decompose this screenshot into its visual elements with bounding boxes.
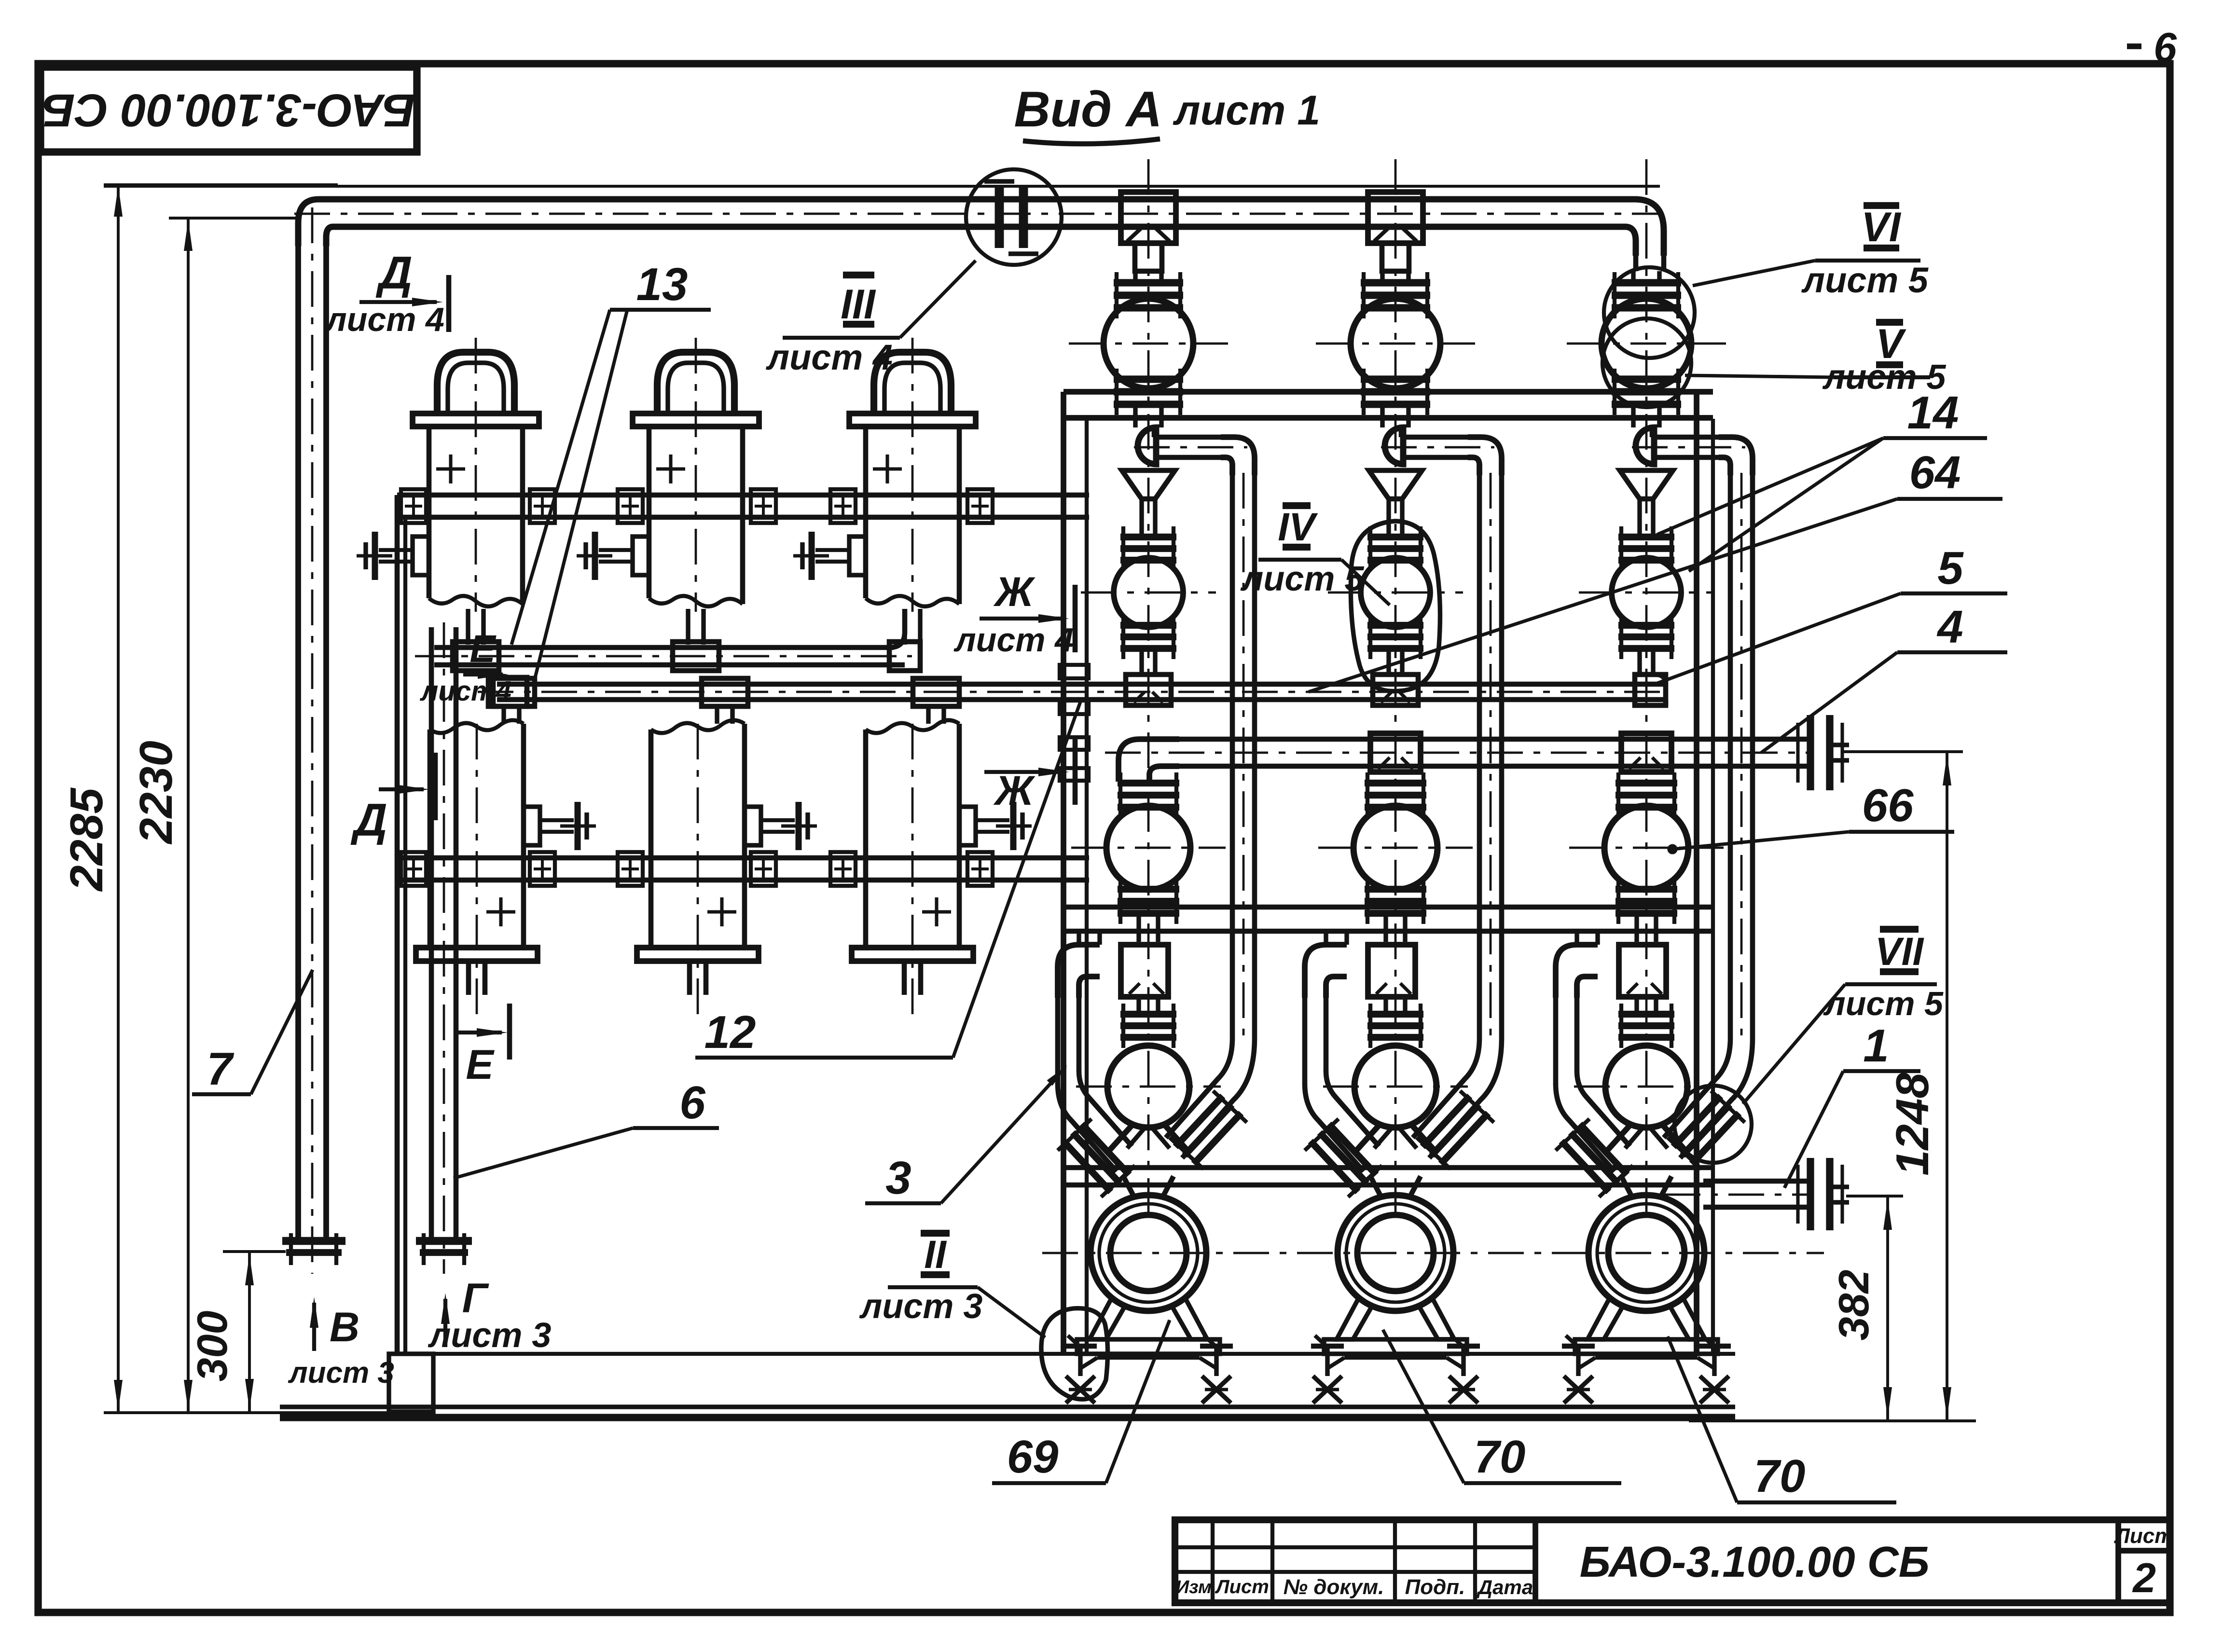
section marker Г лист 3 [443,1299,447,1347]
detail circle VII on pump 3 right arm [1674,1086,1752,1163]
ball valve row 2 [1361,558,1430,627]
tee on lower manifold [1126,675,1171,705]
svg-text:Ж: Ж [993,768,1036,814]
left inlet arm [1553,998,1559,1085]
flange pair above ball valve [1114,279,1183,286]
drain cock К2892 [1325,1346,1329,1376]
elbow at right end of top header [1609,199,1664,256]
flange pair below ball valve [1114,375,1183,383]
flange pair above row2 valve [1120,534,1176,540]
vessel Ф4 cross mark [486,910,515,913]
svg-text:13: 13 [636,259,688,310]
rail clamp [830,489,856,523]
pump module frame right post [1694,392,1699,1354]
top header pipe 2 [104,185,1660,188]
flange pair below row2 valve [1367,622,1423,629]
flange pair below ball valve [1361,375,1430,383]
column centreline [1645,159,1648,1216]
rail clamp lower [530,852,555,886]
ball valve row 3 [1353,806,1437,890]
stamp box top-left (inverted drawing number) [41,67,417,152]
svg-text:2: 2 [2132,1555,2156,1601]
svg-text:Д: Д [375,247,412,299]
filter vessel Ф2 (upper row) [657,352,734,416]
filter vessel Ф6 (lower row) [863,730,869,948]
spool to row4 valve [1634,997,1639,1012]
right arm elbow from downcomer [1413,1038,1479,1138]
spool to manifold [1386,650,1391,675]
pump Н3 baseplate [1575,1339,1718,1354]
vessel Ф4 bottom nozzle [466,961,471,995]
vessel Ф3 top flange [849,413,976,427]
svg-text:IV: IV [1278,505,1318,549]
svg-text:лист 5: лист 5 [1823,358,1947,397]
tee fitting on manifold below vessel Ф2 [673,642,719,671]
flange pair below row2 valve [1120,622,1176,629]
distribution elbow [1556,945,1598,998]
svg-text:69: 69 [1007,1431,1059,1483]
svg-text:лист 3: лист 3 [288,1356,394,1390]
title block table [1175,1520,2170,1603]
tee on suction header [1621,733,1671,772]
flange pair below row3 valve [1615,886,1677,893]
upper vessel outlet stub [686,609,690,645]
distribution tee [1368,945,1415,997]
header elbow at column 1 [1118,739,1179,782]
flange pair below row2 valve [1618,622,1674,629]
detail circle VI on column 3 [1604,267,1695,358]
right arm flange pack [1168,1089,1249,1171]
flange pair above ball valve [1361,279,1430,286]
flange pair below row3 valve [1365,886,1426,893]
left inlet arm [1302,998,1308,1085]
svg-text:VI: VI [1861,204,1901,250]
vessel Ф2 shell [647,427,652,598]
dimension 382 vertical [1886,1196,1889,1421]
drain pipe run under pump [1344,1356,1447,1360]
svg-text:БАО-3.100.00 СБ: БАО-3.100.00 СБ [1580,1538,1930,1586]
pump Н1 inner volute [1110,1215,1187,1291]
reducer cone [1369,470,1422,499]
rail clamp [618,489,643,523]
vessel Ф5 cross mark [707,910,736,913]
distribution elbow [1305,945,1347,998]
svg-text:12: 12 [704,1006,756,1058]
tee fitting on manifold below vessel Ф1 [453,642,499,671]
upper vessel outlet stub [902,609,907,645]
battery post foot [389,1354,433,1412]
svg-text:2285: 2285 [61,787,112,892]
svg-text:382: 382 [1830,1270,1878,1341]
vessel Ф5 centreline [697,724,699,1016]
section symbol II лист 3 [921,1230,950,1237]
floor line of skid [280,1404,1735,1409]
vessel Ф6 bottom nozzle [902,961,907,995]
svg-text:Лист: Лист [1215,1576,1269,1597]
pump Н2 baseplate [1324,1339,1467,1354]
vessel Ф5 bottom flange [637,948,759,961]
svg-text:2230: 2230 [130,741,182,845]
spool to row2 valve [1386,499,1391,537]
vessel Ф4 centreline [476,724,478,1016]
downcomer pipe [1230,475,1235,1038]
svg-text:лист 4: лист 4 [953,621,1074,659]
detail circle V on column 3 [1602,318,1691,407]
ball valve row 1 [1104,299,1193,388]
spool to row2 valve [1139,499,1144,537]
spool through frame [1380,405,1384,427]
svg-text:70: 70 [1754,1450,1806,1502]
pipe 7 bottom flange [282,1237,345,1245]
dimension baseline right [1689,1419,1976,1422]
upper outlet flange (pipe 4 end) [1807,715,1814,790]
downcomer pipe [1728,475,1733,1038]
manifold tee to lower vessel [488,678,535,706]
vessel Ф3 shell [863,427,869,598]
svg-text:64: 64 [1909,447,1961,498]
wye branch under row4 valve [1354,1124,1437,1153]
extension line pipe centreline [169,217,296,220]
vessel Ф3 cross mark [873,467,902,470]
flange pair above row3 valve [1118,780,1179,786]
branch pipe to downcomer [1652,435,1720,440]
left arm flange pack [1554,1117,1635,1199]
elbow top-left of pipe 7 [298,199,338,246]
column centreline [1147,159,1150,1216]
section symbol III with leader [843,272,874,278]
drain valve В6 [959,807,976,845]
spool to valve [1133,271,1137,284]
dimension baseline at floor [104,1411,405,1414]
svg-text:Ж: Ж [993,569,1036,615]
flange pair above ball valve [1612,279,1681,286]
svg-text:Е: Е [466,1042,495,1088]
flange pair above row4 valve [1367,1011,1423,1018]
distribution tee [1619,945,1666,997]
rail clamp [530,489,555,523]
ball valve row 1 [1602,299,1691,388]
pump module frame left post [1061,392,1066,1354]
svg-text:лист 5: лист 5 [1801,260,1929,300]
svg-text:лист4: лист4 [419,675,511,707]
rail clamp lower [618,852,643,886]
left arm flange pack [1303,1117,1384,1199]
left inlet arm [1055,998,1061,1085]
flange pair above row2 valve [1618,534,1674,540]
extension line flange level [223,1250,286,1253]
vertical pipe 6 from battery to bottom flange [429,627,434,1241]
distribution elbow [1058,945,1100,998]
svg-text:Д: Д [350,794,387,846]
spool to valve [1631,271,1635,284]
section symbol VI лист 5 [1864,202,1899,209]
svg-text:лист 3: лист 3 [428,1316,552,1355]
svg-text:Е: Е [469,627,497,670]
svg-text:5: 5 [1937,542,1964,594]
right arm elbow from downcomer [1664,1038,1730,1138]
lower mounting rail of filter battery [397,855,1089,861]
spool to manifold [1637,650,1642,675]
right arm flange pack [1666,1089,1747,1171]
svg-text:6: 6 [679,1077,705,1129]
pump Н1 baseplate [1077,1339,1220,1354]
flange pair above row4 valve [1120,1011,1176,1018]
section marker В лист 3 [312,1303,316,1351]
vessel Ф6 bottom flange [852,948,973,961]
svg-text:VII: VII [1875,930,1924,974]
pump row centreline [1042,1252,1824,1254]
spool through frame [1631,405,1635,427]
diverter fitting [1385,427,1403,464]
spool to row4 valve [1383,997,1388,1012]
ball valve row 3 [1106,806,1190,890]
spool to manifold [1139,650,1144,675]
upper vessel outlet stub [466,609,470,645]
svg-text:300: 300 [188,1311,236,1382]
filter vessel Ф4 (lower row) [428,730,433,948]
pump Н2 inner volute [1357,1215,1434,1291]
column centreline [1395,159,1397,1216]
flange pair below row3 valve [1118,886,1179,893]
distribution tee [1121,945,1168,997]
drain cock К2380 [1214,1346,1218,1376]
pump Н3 inner volute [1608,1215,1685,1291]
right arm elbow from downcomer [1166,1038,1232,1138]
vessel Ф4 bottom flange [416,948,538,961]
svg-text:Г: Г [462,1275,489,1322]
upper manifold pipe 13 [434,645,894,650]
svg-text:70: 70 [1474,1431,1526,1483]
discharge pipe 1 to lower outlet [1703,1179,1813,1184]
extension line lower outlet [1846,1195,1903,1198]
section symbol IV лист 5 [1283,502,1311,509]
drain cock К2380 [1078,1346,1082,1376]
flange pair above row3 valve [1615,780,1677,786]
pump Н2 casing [1338,1195,1453,1311]
pump Н3 casing [1588,1195,1704,1311]
ball valve row 2 [1114,558,1183,627]
svg-text:II: II [924,1233,947,1277]
detail loop II around drain cock [1041,1308,1108,1400]
svg-text:В: В [330,1304,359,1350]
flange pair above row4 valve [1618,1011,1674,1018]
svg-text:4: 4 [1936,601,1963,653]
svg-text:Лист: Лист [2114,1524,2174,1548]
rail clamp [967,489,993,523]
pump Н2 legs [1337,1298,1372,1339]
branch elbow [1468,437,1502,475]
flange pair inside detail III [995,187,1004,248]
manifold crossing sleeves on frame post [1060,665,1089,678]
pipe 6 bottom flange [416,1237,472,1245]
wye branch under row4 valve [1107,1124,1190,1153]
spool through middle chord [1634,917,1639,942]
wye branch under row4 valve [1605,1124,1688,1153]
svg-text:6: 6 [2154,25,2177,71]
ball valve row 3 [1604,806,1688,890]
frame middle chord [1063,905,1713,910]
svg-text:3: 3 [885,1152,911,1204]
branch elbow [1719,437,1753,475]
flange pair above row2 valve [1367,534,1423,540]
drain cock К3412 [1712,1346,1716,1376]
frame lower chord [1063,1165,1713,1170]
rail clamp lower [751,852,776,886]
svg-text:лист 1: лист 1 [1173,87,1320,134]
drain cock К3412 [1576,1346,1580,1376]
spool through frame [1133,405,1137,427]
drain valve В4 [524,807,540,845]
extension line top of pipe [104,183,338,186]
vertical pipe 7 left side [295,246,301,1241]
svg-text:лист 4: лист 4 [324,301,444,338]
left support post of battery frame [395,495,400,1354]
vessel Ф2 centreline [695,338,697,612]
title block sheet cell [2115,1520,2121,1603]
spool to valve [1380,271,1384,284]
pump Н3 legs [1588,1298,1623,1339]
rail clamp [751,489,776,523]
ball valve row 4 [1354,1046,1436,1128]
filter vessel Ф5 (lower row) [649,730,654,948]
rail clamp [401,489,426,523]
section symbol V лист 5 [1876,319,1903,326]
upper mounting rail of filter battery [397,493,1089,498]
dimension 2230 vertical [187,218,190,1413]
svg-text:1: 1 [1863,1020,1889,1072]
svg-text:III: III [841,281,876,328]
manifold tee to lower vessel [702,678,748,706]
suction header pipe [1177,737,1813,742]
drain cock К2892 [1461,1346,1465,1376]
svg-text:1248: 1248 [1887,1073,1938,1176]
left arm flange pack [1056,1117,1137,1199]
spool to row4 valve [1136,997,1141,1012]
ball valve row 1 [1351,299,1440,388]
svg-text:Дата: Дата [1477,1576,1533,1598]
tee on top header [1121,192,1176,243]
tee on suction header [1370,733,1421,772]
vessel Ф6 centreline [911,724,914,1016]
svg-text:№ докум.: № докум. [1284,1575,1384,1599]
extension line upper outlet [1843,750,1963,753]
lower outlet flange [1807,1158,1814,1230]
branch elbow [1221,437,1255,475]
spool through middle chord [1136,917,1141,942]
spool through middle chord [1383,917,1388,942]
spool to row2 valve [1637,499,1642,537]
vessel Ф2 top flange [633,413,759,427]
tee on lower manifold [1373,675,1418,705]
elbow at manifold end [1635,675,1666,705]
elbow on manifold below vessel Ф3 [889,609,905,665]
svg-text:66: 66 [1862,780,1914,831]
svg-text:БАО-3.100.00 СБ: БАО-3.100.00 СБ [42,84,415,136]
frame top chord [1063,389,1713,395]
dimension 1248 vertical [1946,752,1948,1421]
section symbol VII лист 5 [1880,926,1919,933]
vessel Ф1 cross mark [436,467,465,470]
drain pipe run under pump [1595,1356,1698,1360]
manifold tee to lower vessel [913,678,959,706]
drain pipe run under pump [1097,1356,1200,1360]
vent valve В3 [849,537,866,575]
flange pair above row3 valve [1365,780,1426,786]
rail clamp lower [401,852,426,886]
unit base pedestal line [403,1352,1735,1356]
vessel Ф1 centreline [475,338,477,612]
rail clamp lower [830,852,856,886]
vessel Ф6 cross mark [922,910,951,913]
flange pair below ball valve [1612,375,1681,383]
svg-text:Подп.: Подп. [1405,1575,1465,1599]
tee on top header [1368,192,1423,243]
manifold end fitting left [493,677,527,706]
ball valve row 4 [1605,1046,1687,1128]
drain valve В5 [745,807,761,845]
vent valve В1 [413,537,429,575]
svg-text:Вид А: Вид А [1014,82,1162,138]
right arm flange pack [1415,1089,1496,1171]
filter vessel Ф1 (upper row) [437,352,514,416]
branch pipe to downcomer [1154,435,1222,440]
flange joint detail circle III [966,169,1062,265]
diverter fitting [1636,427,1654,464]
diverter fitting [1138,427,1156,464]
lower manifold pipe 12 / 64 [497,682,1666,687]
ball valve row 4 [1107,1046,1189,1128]
reducer cone [1122,470,1175,499]
dimension 2285 vertical [117,184,120,1413]
ball valve row 2 [1612,558,1681,627]
vessel Ф1 top flange [413,413,539,427]
detail loop IV around column 2 row2 valve [1351,521,1440,691]
reducer cone [1620,470,1673,499]
branch pipe to downcomer [1401,435,1469,440]
pump Н1 legs [1090,1298,1125,1339]
dimension 300 vertical [248,1252,251,1413]
vent valve В2 [633,537,649,575]
vessel Ф1 shell [427,427,432,598]
svg-text:лист 3: лист 3 [859,1287,983,1326]
vessel Ф5 bottom nozzle [687,961,692,995]
svg-text:7: 7 [207,1043,235,1095]
rail clamp lower [967,852,993,886]
vessel Ф2 cross mark [656,467,685,470]
filter vessel Ф3 (upper row) [874,352,951,416]
vessel Ф3 centreline [911,338,914,612]
pump Н1 casing [1091,1195,1206,1311]
svg-text:Изм: Изм [1176,1577,1212,1597]
downcomer pipe [1477,475,1482,1038]
